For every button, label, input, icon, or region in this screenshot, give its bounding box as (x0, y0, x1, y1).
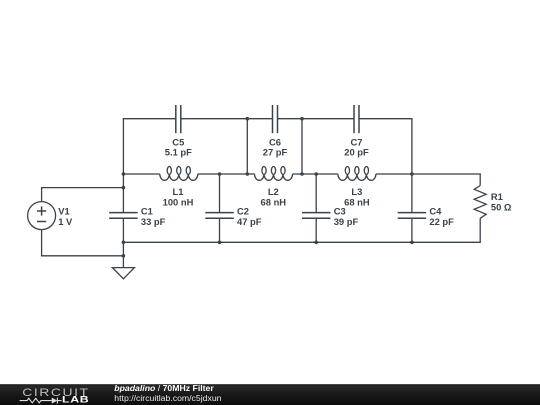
svg-text:33 pF: 33 pF (141, 216, 166, 227)
wire vertical drop C6/C7 junction (301, 119, 303, 174)
svg-text:1 V: 1 V (58, 216, 73, 227)
node inductor row C6 drop (300, 172, 304, 176)
wire inductor row: L2 to L3 (293, 173, 338, 175)
voltage source V1 (28, 202, 56, 230)
svg-text:22 pF: 22 pF (429, 216, 454, 227)
wire top row segment 3 (C6 to C7) (278, 118, 355, 120)
node inductor row C2 (218, 172, 222, 176)
svg-text:50 Ω: 50 Ω (491, 202, 512, 213)
node bottom C2 (218, 241, 222, 245)
svg-text:C5: C5 (172, 136, 184, 147)
svg-text:V1: V1 (58, 206, 69, 217)
node bottom C1 (122, 241, 126, 245)
wire inductor row: L3 to R1 (376, 173, 481, 175)
inductor L3 (338, 174, 376, 180)
node inductor row C5 drop (246, 172, 250, 176)
node ground junction (122, 254, 126, 258)
wire bottom rail (123, 241, 480, 243)
svg-text:27 pF: 27 pF (263, 147, 288, 158)
ground (112, 268, 134, 279)
svg-text:68 nH: 68 nH (344, 196, 370, 207)
node bottom C3 (314, 241, 318, 245)
wire V1 top lead (41, 188, 43, 202)
node inductor row C4/right (410, 172, 414, 176)
wire right rail vertical (top row down to inductor row) (411, 119, 413, 174)
svg-text:C2: C2 (237, 206, 249, 217)
svg-text:L3: L3 (351, 186, 362, 197)
node V1 top junction (122, 186, 126, 190)
svg-text:47 pF: 47 pF (237, 216, 262, 227)
wire V1 bottom lead (41, 230, 43, 256)
wire V1 top (to left rail) (41, 187, 123, 189)
svg-text:http://circuitlab.com/c5jdxun: http://circuitlab.com/c5jdxun (114, 393, 221, 403)
capacitor C4 (411, 174, 413, 213)
wire R1 bottom lead (479, 218, 481, 242)
wire inductor row: L1 to L2 (198, 173, 255, 175)
capacitor C3 (315, 174, 317, 213)
node top C6-C7 (300, 117, 304, 121)
node top C5-C6 (246, 117, 250, 121)
footer bar (0, 384, 540, 405)
wire inductor row: left rail to L1 (123, 173, 159, 175)
svg-text:68 nH: 68 nH (261, 196, 287, 207)
svg-text:C4: C4 (429, 206, 442, 217)
wire vertical drop C5/C6 junction (246, 119, 248, 174)
svg-text:C3: C3 (334, 206, 346, 217)
svg-text:39 pF: 39 pF (334, 216, 359, 227)
svg-text:L2: L2 (268, 186, 279, 197)
inductor L1 (160, 174, 198, 180)
svg-text:100 nH: 100 nH (163, 196, 194, 207)
wire top row segment 4 (C7 to right rail) (359, 118, 413, 120)
svg-text:C6: C6 (269, 136, 281, 147)
svg-text:LAB: LAB (62, 395, 89, 405)
wire R1 top lead (479, 174, 481, 186)
capacitor C5 (175, 105, 177, 133)
svg-text:5.1 pF: 5.1 pF (165, 147, 192, 158)
wire top row segment 1 (node1 to C5) (123, 118, 176, 120)
wire left rail vertical (top row to inductor row) (122, 119, 124, 174)
resistor R1 (474, 186, 486, 219)
node bottom C4 (410, 241, 414, 245)
wire V1 bottom (to ground rail) (41, 255, 123, 257)
CircuitLab logo waveform (resistor + diode) (20, 398, 52, 403)
svg-text:20 pF: 20 pF (344, 147, 369, 158)
svg-text:C1: C1 (141, 206, 153, 217)
inductor L2 (255, 174, 293, 180)
svg-text:bpadalino / 70MHz Filter: bpadalino / 70MHz Filter (114, 383, 214, 393)
wire left rail lower segment (bottom rail to ground) (122, 242, 124, 267)
svg-text:R1: R1 (491, 191, 503, 202)
wire top row segment 2 (C5 to C6) (181, 118, 273, 120)
capacitor C7 (353, 105, 355, 133)
node inductor row C3 (314, 172, 318, 176)
capacitor C1 (122, 174, 124, 213)
capacitor C2 (219, 174, 221, 213)
svg-text:L1: L1 (173, 186, 184, 197)
svg-text:C7: C7 (351, 136, 363, 147)
node inductor row left rail (122, 172, 126, 176)
capacitor C6 (272, 105, 274, 133)
